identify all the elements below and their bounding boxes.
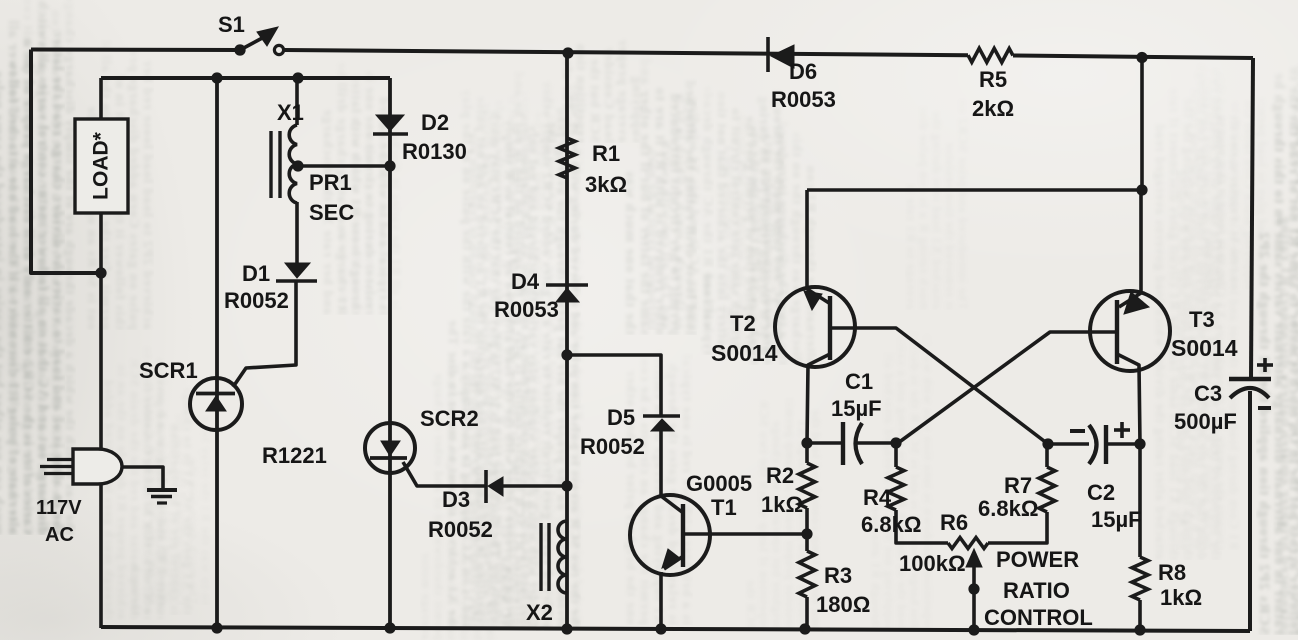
pot R6 wiper arrow: [966, 549, 982, 567]
junction node R8 ground: [1134, 624, 1145, 635]
junction node rail2-X1: [292, 72, 303, 83]
wire LOAD column top: [99, 78, 103, 119]
C3 plus sign: [1257, 358, 1273, 372]
label R4: [863, 485, 892, 510]
wire SCR2 gate to D3: [403, 462, 486, 486]
label AC: [45, 524, 74, 546]
wire D5 to T1 collector: [659, 431, 663, 497]
label 100k ohm of R6: [899, 551, 966, 576]
wire LOAD column bottom: [99, 213, 103, 628]
label R7: [1004, 473, 1032, 498]
wire top rail right segment: [284, 50, 1253, 58]
svg-text:R2: R2: [766, 463, 794, 488]
wire T1 base to R2/R3 node: [683, 532, 806, 536]
svg-text:R4: R4: [863, 485, 892, 510]
label D3: [442, 487, 470, 512]
label S1: [218, 12, 245, 37]
label G0005 of T1: [686, 471, 752, 496]
svg-text:500µF: 500µF: [1174, 409, 1237, 434]
svg-text:CONTROL: CONTROL: [984, 605, 1093, 630]
svg-text:D2: D2: [421, 110, 449, 135]
svg-text:SCR1: SCR1: [139, 358, 198, 383]
wire R5 node drop: [1140, 58, 1144, 191]
svg-text:R0052: R0052: [224, 288, 289, 313]
svg-text:C1: C1: [845, 369, 873, 394]
transistor T2: [775, 287, 855, 367]
label D4: [511, 269, 540, 294]
wire C1 left lead: [807, 441, 843, 445]
svg-text:R0053: R0053: [494, 297, 559, 322]
transformer X1 winding: [289, 125, 297, 203]
wire R3 leads: [805, 534, 809, 629]
junction node C1-R4: [890, 437, 901, 448]
label X1: [277, 100, 304, 125]
junction node LOAD bottom: [95, 267, 106, 278]
wire T3 collector down: [1117, 354, 1140, 444]
junction node emitter rail: [1136, 184, 1147, 195]
wire top rail left segment: [31, 48, 240, 53]
wire R7 top lead: [1045, 444, 1049, 467]
label T2: [730, 311, 756, 336]
switch S1: [234, 27, 283, 56]
wire X1 tap to D2 column: [298, 164, 390, 168]
label 3k ohm: [585, 172, 627, 197]
transistor T3: [1090, 291, 1170, 371]
svg-text:117V: 117V: [36, 497, 82, 519]
svg-text:RATIO: RATIO: [1003, 578, 1070, 603]
diode D1: [276, 263, 317, 281]
svg-text:R1221: R1221: [262, 443, 327, 468]
junction node D3-X2: [561, 480, 572, 491]
label R1: [592, 141, 620, 166]
diode D6: [768, 37, 794, 72]
wire T2 base cross to R7/C2 node: [830, 328, 1048, 444]
label POWER: [996, 547, 1079, 572]
wire pot wiper down: [972, 567, 976, 630]
junction node T1 ground: [655, 623, 666, 634]
wire bottom rail: [101, 627, 1250, 631]
wire T1 emitter to bottom rail: [659, 572, 663, 629]
svg-text:X2: X2: [526, 600, 553, 625]
label R0053 of D4: [494, 297, 559, 322]
load LOAD*: [75, 119, 128, 213]
wire plug to ground: [122, 467, 163, 489]
wire D3 to X2 node: [502, 484, 567, 488]
svg-text:R6: R6: [940, 510, 968, 535]
wire T2 collector down: [807, 354, 830, 443]
resistor R3: [799, 551, 815, 597]
diode D5: [643, 416, 680, 431]
capacitor C3: [1229, 379, 1271, 398]
label S0014 of T3: [1171, 335, 1238, 361]
label C2: [1087, 480, 1115, 505]
capacitor C1: [843, 422, 862, 465]
label D6: [789, 59, 817, 84]
label 1k ohm of R8: [1160, 585, 1202, 610]
wire right rail with C3: [1250, 58, 1253, 631]
wire D2/SCR2 column: [388, 78, 392, 628]
resistor R5: [968, 48, 1013, 62]
svg-text:S0014: S0014: [711, 340, 778, 366]
junction node R3 ground: [799, 623, 810, 634]
label R0053 of D6: [771, 87, 836, 112]
svg-text:D1: D1: [242, 261, 270, 286]
svg-text:LOAD*: LOAD*: [90, 131, 113, 199]
wire SCR1 column: [215, 78, 219, 628]
label R6: [940, 510, 968, 535]
svg-text:R3: R3: [824, 563, 852, 588]
junction node C1-R2: [801, 437, 812, 448]
label R2: [766, 463, 794, 488]
svg-text:6.8kΩ: 6.8kΩ: [978, 496, 1038, 521]
svg-text:PR1: PR1: [309, 170, 352, 195]
label R0052 of D3: [428, 517, 493, 542]
label 180 ohm of R3: [816, 592, 870, 617]
wire R2 leads: [805, 443, 809, 534]
label 117V: [36, 497, 82, 519]
label R5: [979, 67, 1007, 92]
label T1: [711, 495, 737, 520]
wire C1 right lead: [856, 441, 896, 445]
wire R1/X2 column: [565, 53, 569, 629]
label S0014 of T2: [711, 340, 778, 366]
junction node rail2-SCR1: [211, 72, 222, 83]
junction node SCR2 ground: [384, 622, 395, 633]
wire second rail: [101, 76, 390, 80]
potentiometer R6: [948, 538, 988, 549]
label R0130 of D2: [402, 139, 467, 164]
resistor R2: [799, 463, 815, 508]
diode D2: [373, 115, 408, 134]
wire X1 to D1: [295, 202, 299, 263]
svg-text:3kΩ: 3kΩ: [585, 172, 627, 197]
label R1221 of SCR1: [262, 443, 327, 468]
svg-text:C3: C3: [1194, 381, 1222, 406]
svg-text:T1: T1: [711, 495, 737, 520]
label SEC: [309, 200, 354, 225]
label 15uF of C2: [1091, 507, 1142, 532]
svg-text:D4: D4: [511, 269, 540, 294]
junction node R5: [1136, 52, 1147, 63]
svg-text:R8: R8: [1158, 560, 1186, 585]
junction node SCR1 ground: [211, 622, 222, 633]
wire X1 column upper: [295, 78, 299, 125]
resistor R4: [888, 467, 904, 510]
svg-text:T3: T3: [1189, 307, 1215, 332]
svg-text:R5: R5: [979, 67, 1007, 92]
svg-text:X1: X1: [277, 100, 304, 125]
svg-text:SCR2: SCR2: [420, 406, 479, 431]
svg-text:2kΩ: 2kΩ: [972, 96, 1014, 121]
label R0052 of D1: [224, 288, 289, 313]
junction node pot ground: [968, 624, 979, 635]
diode D3: [486, 470, 503, 503]
junction node tap-D2 column: [384, 160, 395, 171]
svg-text:1kΩ: 1kΩ: [761, 492, 803, 517]
wire emitter rail y190: [807, 188, 1142, 192]
svg-text:R1: R1: [592, 141, 620, 166]
SCR SCR1: [190, 378, 242, 430]
label T3: [1189, 307, 1215, 332]
label R0052 of D5: [580, 434, 645, 459]
wire R8 leads: [1138, 444, 1142, 630]
svg-text:S1: S1: [218, 12, 245, 37]
svg-text:R0052: R0052: [580, 434, 645, 459]
svg-text:6.8kΩ: 6.8kΩ: [861, 512, 921, 537]
junction node X2 ground: [561, 623, 572, 634]
label 6.8k ohm of R4: [861, 512, 921, 537]
junction node R7-C2: [1042, 438, 1053, 449]
label C3: [1194, 381, 1222, 406]
wire C2 left lead: [1048, 442, 1089, 446]
svg-text:R0052: R0052: [428, 517, 493, 542]
svg-text:D3: D3: [442, 487, 470, 512]
label 1k ohm of R2: [761, 492, 803, 517]
wire R4 leads and bottom elbow to R6: [896, 443, 948, 543]
svg-text:D5: D5: [607, 405, 635, 430]
C2 plus sign: [1114, 422, 1130, 438]
svg-text:AC: AC: [45, 524, 74, 546]
junction node R2-R3-T1 base: [801, 528, 812, 539]
resistor R1: [559, 138, 575, 178]
transistor T1: [630, 495, 710, 575]
svg-text:R7: R7: [1004, 473, 1032, 498]
label D2: [421, 110, 449, 135]
svg-text:180Ω: 180Ω: [816, 592, 870, 617]
SCR SCR2: [365, 423, 415, 473]
wire T2 emitter up: [805, 190, 809, 289]
label PR1: [309, 170, 352, 195]
label C1: [845, 369, 873, 394]
inductor X2 core: [541, 523, 549, 591]
svg-text:G0005: G0005: [686, 471, 752, 496]
svg-text:S0014: S0014: [1171, 335, 1238, 361]
C3 minus sign: [1258, 406, 1271, 410]
svg-text:R0130: R0130: [402, 139, 467, 164]
label D1: [242, 261, 270, 286]
label 2k ohm: [972, 96, 1014, 121]
svg-text:1kΩ: 1kΩ: [1160, 585, 1202, 610]
label SCR1: [139, 358, 198, 383]
svg-text:C2: C2: [1087, 480, 1115, 505]
label 6.8k ohm of R7: [978, 496, 1038, 521]
label R8: [1158, 560, 1186, 585]
label X2: [526, 600, 553, 625]
label 15uF of C1: [831, 396, 882, 421]
svg-text:T2: T2: [730, 311, 756, 336]
source plug 117V AC: [40, 449, 122, 484]
diode D4: [546, 285, 588, 302]
resistor R8: [1132, 557, 1148, 600]
inductor X2 winding: [558, 521, 567, 593]
transformer X1 core: [271, 131, 280, 198]
C2 minus sign: [1070, 429, 1085, 433]
junction node S1: [234, 44, 245, 55]
svg-text:R0053: R0053: [771, 87, 836, 112]
junction node R1 top: [562, 47, 573, 58]
label CONTROL: [984, 605, 1093, 630]
junction node D4-D5: [561, 349, 572, 360]
svg-text:SEC: SEC: [309, 200, 354, 225]
wire R6 to R7 elbow: [988, 512, 1047, 543]
label RATIO: [1003, 578, 1070, 603]
wire node355 branch to D5: [567, 355, 661, 416]
ground: [147, 490, 177, 503]
wire left branch down to LOAD bottom: [31, 50, 101, 274]
label R3: [824, 563, 852, 588]
junction node C2-R8: [1134, 438, 1145, 449]
svg-text:100kΩ: 100kΩ: [899, 551, 966, 576]
svg-text:15µF: 15µF: [831, 396, 882, 421]
resistor R7: [1039, 467, 1055, 512]
label SCR2: [420, 406, 479, 431]
junction node X1 tap: [292, 160, 303, 171]
wire C2 right lead: [1106, 442, 1140, 446]
wire D1 to SCR1 gate: [233, 281, 296, 387]
label 500uF of C3: [1174, 409, 1237, 434]
svg-text:D6: D6: [789, 59, 817, 84]
svg-text:15µF: 15µF: [1091, 507, 1142, 532]
label D5: [607, 405, 635, 430]
wire T3 base cross to R4/C1 node: [898, 332, 1117, 443]
capacitor C2: [1089, 425, 1106, 464]
wire T3 emitter up: [1139, 190, 1143, 293]
svg-text:POWER: POWER: [996, 547, 1079, 572]
junction node pot wire: [968, 583, 979, 594]
